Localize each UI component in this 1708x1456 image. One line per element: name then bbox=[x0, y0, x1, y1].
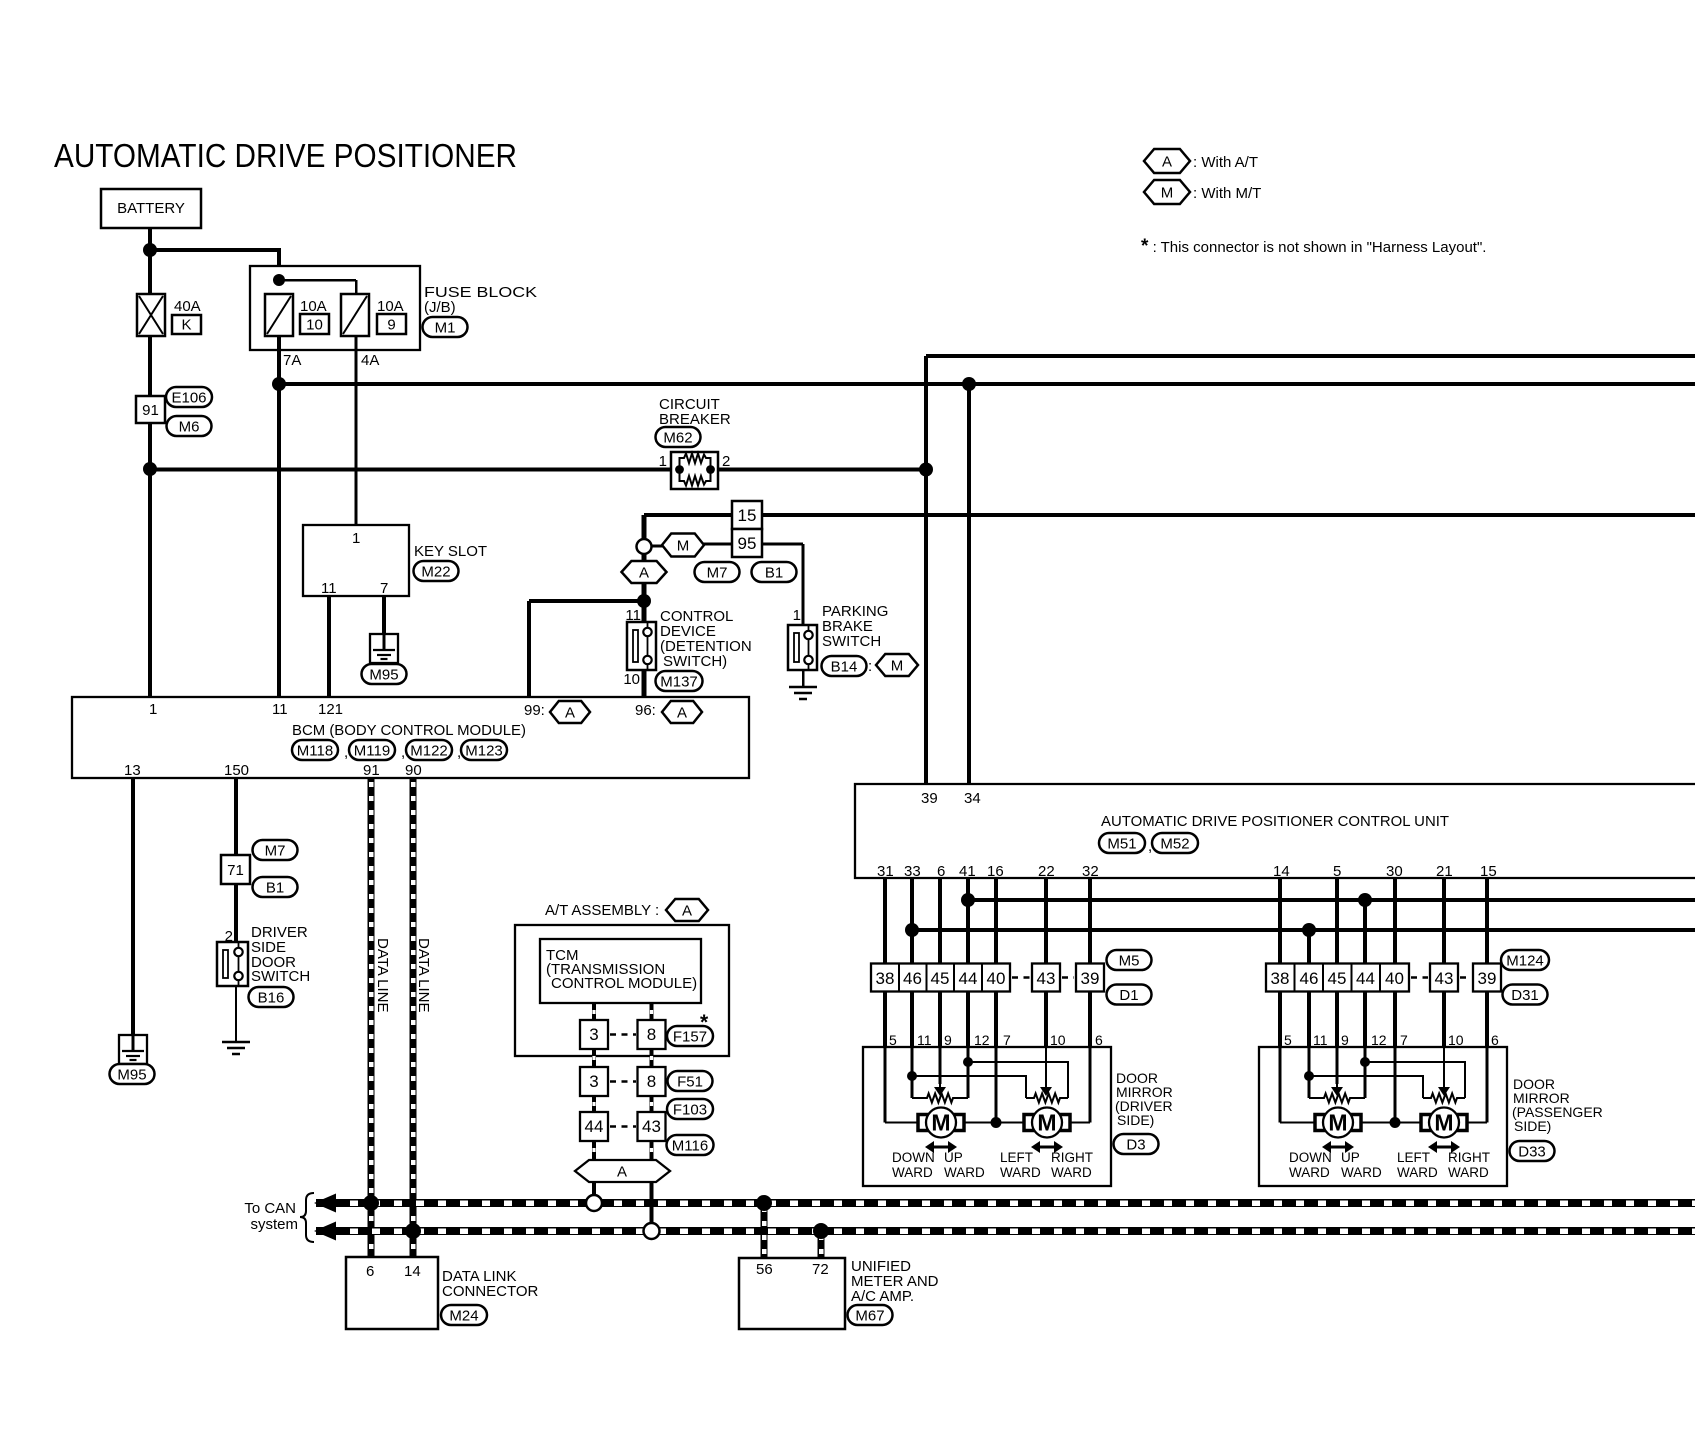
svg-text:40A: 40A bbox=[174, 298, 201, 315]
svg-text:: With A/T: : With A/T bbox=[1193, 154, 1258, 171]
power wire y356 bbox=[926, 354, 1695, 358]
svg-text:M: M bbox=[1037, 1110, 1056, 1136]
connector M22 bbox=[414, 561, 459, 581]
svg-text:43: 43 bbox=[1037, 969, 1056, 988]
wire control unit to connector x1280 bbox=[1278, 878, 1282, 964]
connector box 44 (M116) bbox=[580, 1112, 608, 1141]
svg-text:M24: M24 bbox=[449, 1307, 478, 1324]
svg-text:11: 11 bbox=[1313, 1032, 1328, 1048]
open junction CAN1 TCM bbox=[586, 1195, 602, 1211]
svg-text::: : bbox=[868, 658, 872, 675]
svg-text:30: 30 bbox=[1386, 863, 1403, 880]
wire F157 to F51 x594 bbox=[592, 1049, 596, 1067]
wire key slot 11 to BCM 121 bbox=[327, 596, 331, 697]
svg-text:5: 5 bbox=[1284, 1032, 1292, 1048]
svg-text:A/C AMP.: A/C AMP. bbox=[851, 1288, 914, 1305]
svg-text:,: , bbox=[344, 744, 348, 761]
wire control device to BCM pin 96 bbox=[642, 670, 647, 697]
wire key slot 7 to ground bbox=[382, 596, 386, 634]
connector D1 bbox=[1107, 985, 1152, 1005]
wiper driver up/down (pin 9) bbox=[934, 1084, 946, 1096]
wire control unit to connector x1395 bbox=[1393, 878, 1397, 964]
svg-text:LEFT: LEFT bbox=[1000, 1150, 1033, 1165]
wire connector to passenger mirror x1444 bbox=[1442, 992, 1446, 1048]
svg-text:46: 46 bbox=[903, 969, 922, 988]
connector box 39 (driver) bbox=[1076, 964, 1104, 992]
circuit breaker M62 symbol bbox=[671, 452, 718, 489]
motor M driver left/right bbox=[1024, 1108, 1070, 1138]
svg-text:15: 15 bbox=[1480, 863, 1497, 880]
unified meter and A/C amp box M67 bbox=[739, 1258, 845, 1329]
svg-text:43: 43 bbox=[642, 1117, 661, 1136]
wire 71 to door switch bbox=[234, 884, 238, 942]
svg-text:10A: 10A bbox=[300, 298, 327, 315]
wire F157 to F51 x651 bbox=[650, 1049, 654, 1067]
svg-text:1: 1 bbox=[149, 701, 157, 718]
svg-text:A/T ASSEMBLY: A/T ASSEMBLY bbox=[545, 902, 651, 919]
wire to BCM pin 99 bbox=[529, 599, 644, 603]
svg-text:3: 3 bbox=[589, 1025, 598, 1044]
dashed link 40-43 (driver) bbox=[1012, 976, 1030, 979]
data line unified meter 72 bbox=[818, 1231, 825, 1258]
wire circuit breaker pin 2 to control unit feed bbox=[719, 468, 926, 472]
battery box bbox=[101, 189, 201, 228]
open junction circle x644 bbox=[637, 539, 652, 554]
connector box 43 (M116) bbox=[638, 1112, 666, 1141]
open junction CAN2 TCM bbox=[644, 1223, 660, 1239]
svg-text:4A: 4A bbox=[361, 352, 379, 369]
svg-text:21: 21 bbox=[1436, 863, 1453, 880]
svg-text:F51: F51 bbox=[677, 1073, 703, 1090]
svg-text:12: 12 bbox=[974, 1032, 990, 1048]
mirror wire y900 bbox=[968, 898, 1695, 902]
svg-text:10: 10 bbox=[1448, 1032, 1464, 1048]
svg-text:32: 32 bbox=[1082, 863, 1099, 880]
dashed link M116 bbox=[610, 1125, 636, 1128]
svg-text:M67: M67 bbox=[855, 1307, 884, 1324]
svg-text:M22: M22 bbox=[421, 563, 450, 580]
junction battery branch bbox=[143, 243, 157, 257]
svg-text:14: 14 bbox=[1273, 863, 1290, 880]
wire down to parking brake switch bbox=[802, 544, 805, 625]
wire BCM 150 down bbox=[234, 778, 238, 855]
svg-text:M119: M119 bbox=[354, 742, 390, 759]
parking brake switch B14 bbox=[788, 625, 817, 670]
svg-text:M122: M122 bbox=[410, 742, 448, 759]
svg-text:39: 39 bbox=[921, 790, 938, 807]
wire 4A to key slot pin 1 bbox=[355, 336, 358, 525]
svg-text:2: 2 bbox=[225, 928, 233, 945]
wire connector to driver mirror x1090 bbox=[1088, 992, 1092, 1048]
door mirror passenger side box bbox=[1259, 1047, 1507, 1186]
arrow passenger left/right bbox=[1428, 1141, 1460, 1153]
connector B16 bbox=[249, 987, 294, 1007]
svg-text:B16: B16 bbox=[258, 989, 285, 1006]
wire hexagon A to control device bbox=[642, 583, 647, 622]
svg-text:M7: M7 bbox=[707, 564, 728, 581]
connector box 95 bbox=[732, 529, 762, 557]
wire connector to driver mirror x968 bbox=[966, 992, 970, 1048]
svg-text:A: A bbox=[682, 902, 692, 919]
wire control unit to connector x1487 bbox=[1485, 878, 1489, 964]
connector box 8 (F157) bbox=[638, 1020, 666, 1049]
wire connector to passenger mirror x1309 bbox=[1307, 992, 1311, 1048]
svg-text:F103: F103 bbox=[673, 1101, 707, 1118]
svg-text:11: 11 bbox=[917, 1032, 932, 1048]
svg-text:A: A bbox=[677, 704, 687, 721]
arrow CAN1 bbox=[314, 1194, 336, 1213]
svg-text:M7: M7 bbox=[265, 842, 286, 859]
svg-text:33: 33 bbox=[904, 863, 921, 880]
svg-text:40: 40 bbox=[987, 969, 1006, 988]
svg-text:WARD: WARD bbox=[892, 1165, 933, 1180]
svg-text:B1: B1 bbox=[266, 879, 284, 896]
svg-text:DOWN: DOWN bbox=[892, 1150, 935, 1165]
svg-text:11: 11 bbox=[272, 701, 288, 718]
svg-text:,: , bbox=[401, 744, 405, 761]
connector M137 bbox=[656, 671, 703, 691]
svg-text:BCM (BODY CONTROL MODULE): BCM (BODY CONTROL MODULE) bbox=[292, 722, 526, 739]
wire 95 to parking brake switch bbox=[762, 543, 803, 546]
connector box 15 bbox=[732, 501, 762, 529]
dashed link 40-43 (passenger) bbox=[1411, 976, 1428, 979]
fuse block (J/B) box M1 bbox=[250, 266, 420, 350]
svg-text:44: 44 bbox=[585, 1117, 604, 1136]
connector M7 (ignition) bbox=[695, 562, 740, 582]
connector box 9 bbox=[377, 314, 406, 334]
svg-text:13: 13 bbox=[124, 762, 141, 779]
svg-text:M: M bbox=[1328, 1110, 1347, 1136]
svg-text:9: 9 bbox=[944, 1032, 952, 1048]
svg-text:15: 15 bbox=[738, 506, 757, 525]
svg-text:AUTOMATIC DRIVE POSITIONER: AUTOMATIC DRIVE POSITIONER bbox=[54, 137, 517, 174]
svg-text:M123: M123 bbox=[465, 742, 503, 759]
svg-text:WARD: WARD bbox=[1000, 1165, 1041, 1180]
wire connector to driver mirror x996 bbox=[994, 992, 998, 1048]
junction CAN1 data line 91 bbox=[363, 1195, 379, 1211]
dashed link F51 bbox=[610, 1080, 636, 1083]
wire connector to driver mirror x912 bbox=[910, 992, 914, 1048]
svg-text:40: 40 bbox=[1385, 969, 1404, 988]
connector M6 bbox=[167, 416, 212, 436]
svg-text:6: 6 bbox=[1491, 1032, 1499, 1048]
svg-text:WARD: WARD bbox=[1448, 1165, 1489, 1180]
arrow CAN2 bbox=[314, 1222, 336, 1241]
wire control unit to connector x940 bbox=[938, 878, 942, 964]
svg-text:WARD: WARD bbox=[1289, 1165, 1330, 1180]
legend hexagon M (With M/T) bbox=[1144, 180, 1190, 204]
svg-text:1: 1 bbox=[352, 530, 360, 547]
svg-text:1: 1 bbox=[659, 453, 667, 470]
svg-text:RIGHT: RIGHT bbox=[1448, 1150, 1490, 1165]
wire control unit pin 39 feed bbox=[924, 356, 928, 784]
svg-text:96:: 96: bbox=[635, 702, 656, 719]
svg-text:M: M bbox=[891, 657, 904, 674]
connector box 39 (passenger) bbox=[1473, 964, 1501, 992]
wire down BCM pin 99 bbox=[527, 601, 531, 697]
fuse 10A #10 bbox=[265, 294, 293, 336]
svg-text:BATTERY: BATTERY bbox=[117, 200, 185, 217]
svg-text:150: 150 bbox=[224, 762, 249, 779]
junction inside fuse block bbox=[273, 274, 285, 286]
wire battery branch to fuse block bbox=[148, 248, 279, 252]
svg-text:91: 91 bbox=[363, 762, 380, 779]
svg-text:8: 8 bbox=[647, 1025, 656, 1044]
variable resistor driver up/down bbox=[912, 1094, 968, 1103]
wire control unit to connector x1090 bbox=[1088, 878, 1092, 964]
svg-text:A: A bbox=[565, 704, 575, 721]
dashed link 43-39 (driver) bbox=[1062, 976, 1074, 979]
wire connector to passenger mirror x1337 bbox=[1335, 992, 1339, 1048]
fusible link 40A K bbox=[137, 294, 165, 336]
svg-text:BREAKER: BREAKER bbox=[659, 411, 731, 428]
svg-text:34: 34 bbox=[964, 790, 981, 807]
control device detention switch M137 bbox=[627, 622, 656, 670]
wire F51 to M116 x651 bbox=[650, 1096, 654, 1112]
svg-text:5: 5 bbox=[889, 1032, 897, 1048]
svg-text:M5: M5 bbox=[1119, 952, 1140, 969]
svg-text:10: 10 bbox=[1050, 1032, 1066, 1048]
svg-text:* : This connector is not show: * : This connector is not shown in "Harn… bbox=[1141, 236, 1486, 257]
svg-text::: : bbox=[655, 902, 659, 919]
svg-text:M137: M137 bbox=[660, 673, 698, 690]
svg-text:11: 11 bbox=[625, 607, 641, 624]
svg-text:11: 11 bbox=[321, 580, 337, 597]
svg-text:2: 2 bbox=[722, 453, 730, 470]
brace To CAN system bbox=[300, 1193, 314, 1242]
connector box 8 (F51) bbox=[638, 1067, 666, 1096]
svg-text:14: 14 bbox=[404, 1263, 421, 1280]
svg-text:M: M bbox=[1161, 184, 1174, 201]
automatic drive positioner control unit box bbox=[855, 784, 1695, 878]
svg-text:M95: M95 bbox=[117, 1066, 146, 1083]
svg-text:45: 45 bbox=[1328, 969, 1347, 988]
junction CAN2 unified meter bbox=[813, 1223, 829, 1239]
svg-text:SIDE): SIDE) bbox=[1117, 1112, 1154, 1128]
svg-text:91: 91 bbox=[142, 402, 159, 419]
wire to circuit breaker pin 1 bbox=[150, 468, 671, 472]
svg-text:system: system bbox=[250, 1216, 298, 1233]
connector box 3 (F157) bbox=[580, 1020, 608, 1049]
svg-text:6: 6 bbox=[366, 1263, 374, 1280]
svg-text:31: 31 bbox=[877, 863, 894, 880]
svg-text:M52: M52 bbox=[1160, 835, 1189, 852]
svg-text:99:: 99: bbox=[524, 702, 545, 719]
hexagon M (parking brake) bbox=[876, 654, 918, 676]
wire into fuse 9 bbox=[355, 280, 358, 296]
svg-text:D31: D31 bbox=[1511, 987, 1539, 1004]
svg-text:9: 9 bbox=[1341, 1032, 1349, 1048]
junction passenger mirror pin7 bbox=[1390, 1117, 1401, 1128]
dashed link 43-39 (passenger) bbox=[1460, 976, 1471, 979]
motor M passenger up/down bbox=[1315, 1108, 1361, 1138]
data line BCM 91 bbox=[368, 778, 375, 1257]
svg-text:M: M bbox=[1434, 1110, 1453, 1136]
svg-text:71: 71 bbox=[227, 862, 244, 879]
wire down into fuse block bbox=[277, 248, 281, 296]
junction passenger mirror pin12 bbox=[1360, 1057, 1370, 1067]
wire circle to hexagon M bbox=[651, 545, 664, 548]
connector box K bbox=[172, 315, 201, 334]
svg-text:(J/B): (J/B) bbox=[424, 299, 456, 316]
connector D31 bbox=[1503, 985, 1548, 1005]
door mirror driver side box bbox=[863, 1047, 1111, 1186]
data link connector box M24 bbox=[346, 1257, 438, 1329]
junction 7A power branch bbox=[272, 377, 286, 391]
wire F51 to M116 x594 bbox=[592, 1096, 596, 1112]
connector B14 bbox=[822, 656, 867, 676]
hexagon A (ignition A/T) bbox=[622, 561, 667, 583]
svg-text:45: 45 bbox=[931, 969, 950, 988]
CAN bus line 1 bbox=[316, 1199, 1695, 1207]
TCM box bbox=[540, 939, 701, 1003]
junction at x926 bbox=[919, 463, 933, 477]
svg-text:WARD: WARD bbox=[944, 1165, 985, 1180]
wire down to connector circle bbox=[642, 515, 647, 540]
connector B1 (door sw) bbox=[253, 877, 298, 897]
connector box 71 bbox=[221, 855, 250, 884]
wire control unit pin 34 feed bbox=[967, 384, 971, 784]
passenger connector row 38 46 45 44 40 (M124/D31) bbox=[1266, 964, 1409, 992]
svg-text:DATA LINE: DATA LINE bbox=[415, 938, 432, 1012]
svg-text:3: 3 bbox=[589, 1072, 598, 1091]
connector box 3 (F51) bbox=[580, 1067, 608, 1096]
svg-text:6: 6 bbox=[1095, 1032, 1103, 1048]
data line BCM 90 bbox=[410, 778, 417, 1257]
variable resistor passenger up/down bbox=[1309, 1094, 1365, 1103]
svg-text:D3: D3 bbox=[1126, 1136, 1145, 1153]
variable resistor passenger left/right bbox=[1423, 1094, 1465, 1103]
wire circle to hexagon A bbox=[642, 553, 647, 562]
wire parking brake to ground bbox=[802, 670, 805, 687]
wire connector to driver mirror x885 bbox=[883, 992, 887, 1048]
svg-text:9: 9 bbox=[387, 317, 395, 334]
wiper driver left/right (pin 10) bbox=[1040, 1084, 1052, 1096]
junction battery/circuit-breaker bbox=[143, 462, 157, 476]
wire connector to passenger mirror x1487 bbox=[1485, 992, 1489, 1048]
connector M95 (pin 13) bbox=[110, 1064, 155, 1084]
driver side door switch B16 bbox=[217, 942, 248, 986]
wire control unit to connector x1444 bbox=[1442, 878, 1446, 964]
svg-text:KEY SLOT: KEY SLOT bbox=[414, 543, 487, 560]
power wire y384 bbox=[279, 382, 1695, 386]
connector box 10 bbox=[300, 314, 329, 334]
wiper passenger left/right (pin 10) bbox=[1438, 1084, 1450, 1096]
svg-text:CONTROL MODULE): CONTROL MODULE) bbox=[551, 975, 697, 992]
svg-text:M95: M95 bbox=[369, 666, 398, 683]
ground (door switch) bbox=[222, 1042, 250, 1054]
wire hexagon to CAN1 bbox=[592, 1182, 596, 1196]
svg-text:44: 44 bbox=[959, 969, 978, 988]
svg-text:: With M/T: : With M/T bbox=[1193, 185, 1261, 202]
svg-text:A: A bbox=[1162, 153, 1172, 170]
wire control unit to connector x1337 bbox=[1335, 878, 1339, 964]
wire connector to passenger mirror x1280 bbox=[1278, 992, 1282, 1048]
svg-text:1: 1 bbox=[793, 607, 801, 624]
wire TCM pin x651 bbox=[650, 1003, 654, 1020]
junction y930 x1309 bbox=[1302, 923, 1316, 937]
svg-text:AUTOMATIC DRIVE POSITIONER CON: AUTOMATIC DRIVE POSITIONER CONTROL UNIT bbox=[1101, 813, 1449, 830]
fuse 10A #9 bbox=[341, 294, 369, 336]
BCM (body control module) box bbox=[72, 697, 749, 778]
connector F103 bbox=[667, 1099, 713, 1119]
svg-text:WARD: WARD bbox=[1397, 1165, 1438, 1180]
hexagon A (pin 96) bbox=[662, 701, 702, 723]
wiper passenger up/down (pin 9) bbox=[1331, 1084, 1343, 1096]
svg-text:56: 56 bbox=[756, 1261, 773, 1278]
connector M1 bbox=[423, 317, 468, 337]
svg-text:10: 10 bbox=[306, 317, 323, 334]
key slot box M22 bbox=[303, 525, 409, 596]
arrow driver left/right bbox=[1031, 1141, 1063, 1153]
junction passenger mirror pin11 bbox=[1304, 1071, 1314, 1081]
mirror wire y930 bbox=[912, 928, 1695, 932]
hexagon A (A/T assembly) bbox=[666, 899, 708, 921]
wire control unit to connector x996 bbox=[994, 878, 998, 964]
svg-text:8: 8 bbox=[647, 1072, 656, 1091]
driver mirror internal wiring bbox=[885, 1047, 1090, 1123]
wire M116 to hexagon x651 bbox=[650, 1141, 654, 1160]
motor M passenger left/right bbox=[1421, 1108, 1467, 1138]
connector M119 bbox=[349, 740, 395, 760]
wire hexagon to CAN2 bbox=[650, 1182, 654, 1224]
wire control unit to connector x912 bbox=[910, 878, 914, 964]
wire branch to fuse 9 bbox=[279, 279, 356, 282]
svg-text:DATA LINE: DATA LINE bbox=[374, 938, 391, 1012]
connector box 43 (driver) bbox=[1032, 964, 1060, 992]
connector M116 bbox=[667, 1135, 714, 1155]
junction y930 x912 bbox=[905, 923, 919, 937]
svg-text:121: 121 bbox=[318, 701, 343, 718]
wire M116 to hexagon x594 bbox=[592, 1141, 596, 1160]
ground M95 (BCM pin 13) bbox=[119, 1035, 147, 1064]
wire connector to passenger mirror x1395 bbox=[1393, 992, 1397, 1048]
junction y900 x968 bbox=[961, 893, 975, 907]
ground M95 (key slot) bbox=[370, 634, 398, 663]
wire control unit to connector x885 bbox=[883, 878, 887, 964]
connector M7 (door sw) bbox=[253, 840, 298, 860]
connector M67 bbox=[848, 1305, 893, 1325]
junction CAN2 data line 90 bbox=[405, 1223, 421, 1239]
connector M52 bbox=[1152, 833, 1198, 853]
svg-text:72: 72 bbox=[812, 1261, 829, 1278]
svg-text:22: 22 bbox=[1038, 863, 1055, 880]
connector F51 bbox=[668, 1071, 713, 1091]
connector M51 bbox=[1099, 833, 1145, 853]
arrow driver up/down bbox=[925, 1141, 957, 1153]
svg-text:12: 12 bbox=[1371, 1032, 1387, 1048]
driver connector row 38 46 45 44 40 (M5/D1) bbox=[871, 964, 1010, 992]
svg-text:M118: M118 bbox=[297, 742, 333, 759]
data line unified meter 56 bbox=[761, 1203, 768, 1258]
svg-text:SWITCH): SWITCH) bbox=[663, 653, 727, 670]
hexagon M (ignition M/T) bbox=[662, 534, 704, 557]
svg-text:WARD: WARD bbox=[1341, 1165, 1382, 1180]
svg-text:A: A bbox=[617, 1164, 627, 1181]
svg-text:UP: UP bbox=[1341, 1150, 1360, 1165]
svg-text:M: M bbox=[677, 537, 690, 554]
hexagon A (pin 99) bbox=[550, 701, 590, 723]
connector M122 bbox=[406, 740, 452, 760]
svg-text:95: 95 bbox=[738, 534, 757, 553]
svg-text:A: A bbox=[639, 564, 649, 581]
wire connector to driver mirror x940 bbox=[938, 992, 942, 1048]
connector box 91 bbox=[136, 396, 165, 423]
connector M95 (key slot ground) bbox=[362, 664, 407, 684]
connector D3 bbox=[1114, 1134, 1159, 1154]
svg-text:10: 10 bbox=[623, 671, 640, 688]
svg-text:M6: M6 bbox=[179, 418, 200, 435]
